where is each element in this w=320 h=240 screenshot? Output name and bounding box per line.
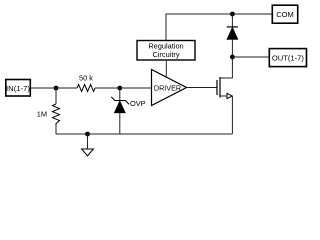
transistor Q1 gate bar xyxy=(216,80,218,95)
wire resistor R1 to node B xyxy=(95,87,120,89)
wire IN to node A xyxy=(31,87,56,89)
svg-text:OVP: OVP xyxy=(130,99,146,108)
terminal box OUT(1-7) xyxy=(269,49,306,67)
transistor Q1 channel bar xyxy=(219,77,221,98)
zener diode OVP triangle xyxy=(114,101,125,113)
resistor R1 50 k xyxy=(77,85,95,92)
diode D1 cathode bar xyxy=(227,26,238,28)
regulation circuitry block xyxy=(137,41,195,61)
wire node B down to zener OVP xyxy=(119,88,121,101)
svg-text:COM: COM xyxy=(276,10,294,19)
resistor R2 1M xyxy=(53,104,60,125)
svg-text:DRIVER: DRIVER xyxy=(154,83,181,92)
diode D1 triangle xyxy=(227,27,238,39)
wire regulation box bottom to driver xyxy=(165,60,167,78)
svg-text:50 k: 50 k xyxy=(79,74,93,83)
wire resistor R2 to bottom rail xyxy=(55,125,57,134)
wire node D to OUT box xyxy=(232,56,269,58)
wire diode D1 to node D xyxy=(231,39,233,57)
wire node A to resistor R1 xyxy=(56,87,77,89)
node E (ground junction dot) xyxy=(85,132,90,137)
svg-text:Circuitry: Circuitry xyxy=(152,50,179,59)
wire driver output to transistor gate xyxy=(187,87,218,89)
node D (junction dot) xyxy=(230,55,235,60)
svg-text:OUT(1-7): OUT(1-7) xyxy=(272,53,305,62)
zener diode OVP cathode bar xyxy=(111,97,129,104)
node A (junction dot) xyxy=(54,86,59,91)
terminal box IN(1-7) xyxy=(6,80,31,97)
terminal box COM xyxy=(272,5,297,23)
wire regulation box top to top rail xyxy=(165,14,167,41)
wire node B to driver input xyxy=(120,87,152,89)
transistor Q1 source wire with arrow xyxy=(220,95,227,97)
wire node A down to resistor R2 xyxy=(55,88,57,104)
top rail wire to COM xyxy=(166,13,273,15)
op-amp U1 DRIVER xyxy=(152,70,187,106)
svg-text:1M: 1M xyxy=(37,110,47,119)
transistor Q1 drain wire xyxy=(220,57,232,78)
node B (junction dot) xyxy=(117,86,122,91)
ground xyxy=(87,134,89,149)
node C (junction dot) xyxy=(230,12,235,17)
bottom rail wire xyxy=(56,133,232,135)
wire zener OVP to bottom rail xyxy=(119,113,121,134)
svg-text:IN(1-7): IN(1-7) xyxy=(6,84,30,93)
wire node C down to diode D1 xyxy=(231,14,233,27)
